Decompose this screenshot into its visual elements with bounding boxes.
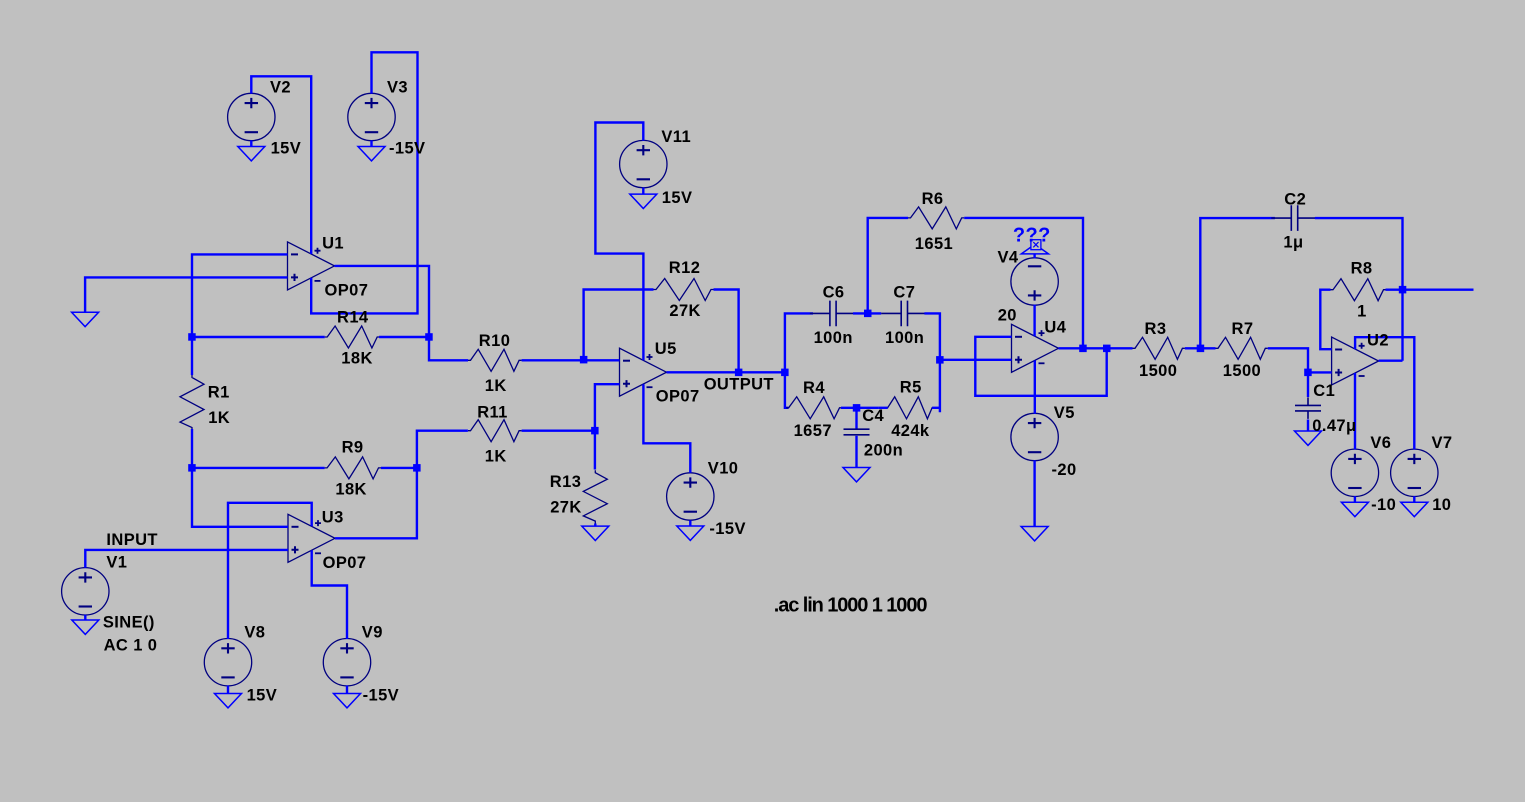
svg-text:1500: 1500	[1223, 362, 1261, 380]
svg-text:100n: 100n	[814, 329, 853, 347]
svg-text:R3: R3	[1145, 320, 1167, 338]
svg-text:R4: R4	[803, 379, 825, 397]
svg-text:OP07: OP07	[656, 388, 700, 406]
svg-text:OP07: OP07	[325, 282, 369, 300]
svg-text:1657: 1657	[794, 422, 832, 440]
svg-text:15V: 15V	[662, 189, 693, 207]
svg-text:U1: U1	[322, 235, 344, 253]
svg-text:1K: 1K	[485, 447, 507, 465]
svg-text:-15V: -15V	[363, 687, 399, 705]
svg-text:C6: C6	[823, 283, 845, 301]
svg-text:27K: 27K	[669, 302, 700, 320]
svg-text:V2: V2	[270, 78, 291, 96]
svg-text:V11: V11	[661, 128, 691, 146]
svg-text:R6: R6	[922, 190, 944, 208]
svg-text:V1: V1	[106, 554, 127, 572]
svg-text:R8: R8	[1351, 259, 1373, 277]
svg-text:1K: 1K	[485, 377, 507, 395]
svg-text:R13: R13	[550, 473, 581, 491]
svg-text:424k: 424k	[891, 422, 930, 440]
svg-text:10: 10	[1432, 496, 1451, 514]
svg-text:27K: 27K	[550, 499, 581, 517]
svg-text:R10: R10	[479, 332, 510, 350]
svg-text:18K: 18K	[341, 349, 372, 367]
svg-text:SINE(): SINE()	[103, 614, 155, 632]
svg-text:V4: V4	[998, 249, 1019, 267]
svg-text:U2: U2	[1367, 332, 1389, 350]
svg-text:100n: 100n	[885, 329, 924, 347]
svg-text:.ac lin 1000 1 1000: .ac lin 1000 1 1000	[774, 595, 928, 617]
svg-text:15V: 15V	[247, 687, 278, 705]
svg-text:V8: V8	[244, 624, 265, 642]
svg-text:C2: C2	[1284, 191, 1306, 209]
svg-text:-10: -10	[1371, 496, 1396, 514]
svg-text:C7: C7	[893, 283, 915, 301]
svg-text:R1: R1	[208, 383, 230, 401]
svg-text:R14: R14	[337, 308, 369, 326]
svg-text:V10: V10	[708, 460, 739, 478]
svg-text:OUTPUT: OUTPUT	[704, 376, 774, 394]
svg-text:V9: V9	[362, 624, 383, 642]
svg-text:U4: U4	[1044, 319, 1066, 337]
svg-text:-15V: -15V	[389, 139, 425, 157]
svg-text:V3: V3	[387, 78, 408, 96]
svg-text:15V: 15V	[271, 139, 302, 157]
svg-text:R11: R11	[477, 404, 508, 422]
svg-text:R9: R9	[342, 439, 364, 457]
svg-text:1μ: 1μ	[1283, 233, 1303, 251]
svg-text:C1: C1	[1313, 382, 1335, 400]
svg-text:OP07: OP07	[323, 554, 367, 572]
svg-text:R7: R7	[1232, 320, 1254, 338]
svg-text:R5: R5	[900, 378, 922, 396]
svg-text:-15V: -15V	[709, 520, 745, 538]
svg-text:1651: 1651	[915, 235, 953, 253]
svg-text:1500: 1500	[1139, 362, 1177, 380]
svg-text:C4: C4	[862, 407, 884, 425]
svg-text:-20: -20	[1052, 461, 1077, 479]
svg-text:1K: 1K	[208, 409, 230, 427]
svg-text:18K: 18K	[335, 481, 366, 499]
svg-text:INPUT: INPUT	[106, 531, 157, 549]
svg-text:V7: V7	[1432, 434, 1453, 452]
svg-text:1: 1	[1357, 302, 1367, 320]
svg-text:AC 1 0: AC 1 0	[104, 637, 158, 655]
svg-text:???: ???	[1013, 224, 1051, 246]
svg-text:20: 20	[998, 307, 1017, 325]
svg-text:U3: U3	[322, 509, 344, 527]
svg-text:U5: U5	[655, 340, 677, 358]
svg-text:V6: V6	[1370, 434, 1391, 452]
svg-text:R12: R12	[669, 259, 700, 277]
svg-text:0.47μ: 0.47μ	[1312, 417, 1356, 435]
svg-text:200n: 200n	[864, 441, 903, 459]
svg-text:V5: V5	[1054, 404, 1075, 422]
